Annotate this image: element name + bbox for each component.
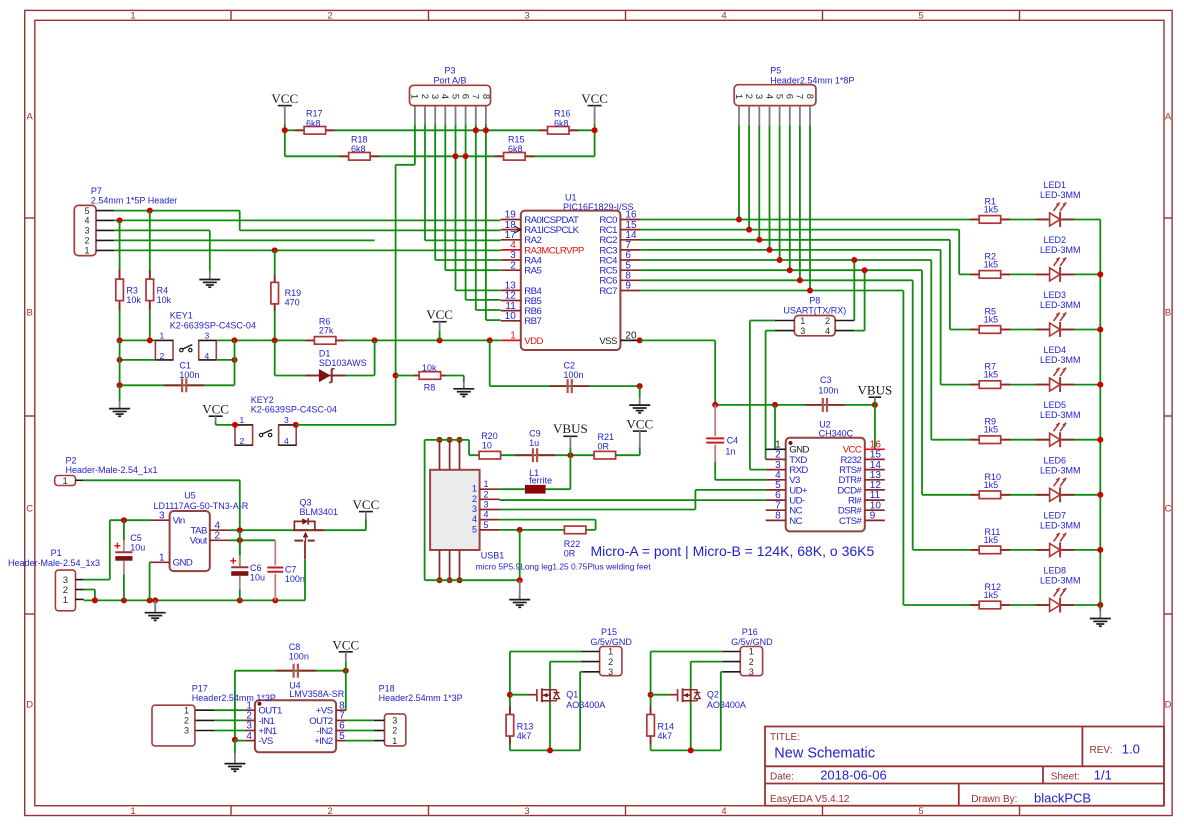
svg-text:10u: 10u (250, 573, 265, 583)
svg-text:VCC: VCC (353, 497, 380, 512)
svg-text:3: 3 (472, 504, 477, 514)
svg-text:1: 1 (130, 806, 135, 817)
svg-text:5: 5 (339, 731, 345, 742)
svg-text:100n: 100n (564, 370, 584, 380)
svg-text:3: 3 (429, 94, 440, 99)
svg-text:1n: 1n (725, 447, 735, 457)
svg-text:4: 4 (763, 94, 774, 99)
svg-text:5: 5 (449, 94, 460, 99)
svg-text:R13: R13 (517, 722, 534, 732)
svg-text:2: 2 (327, 11, 332, 22)
svg-text:3: 3 (392, 716, 397, 726)
svg-text:3: 3 (753, 94, 764, 99)
svg-text:2018-06-06: 2018-06-06 (820, 768, 887, 783)
svg-text:4: 4 (84, 216, 89, 226)
svg-text:LMV358A-SR: LMV358A-SR (289, 689, 345, 699)
svg-text:CTS#: CTS# (839, 516, 863, 527)
svg-text:R14: R14 (658, 722, 675, 732)
svg-text:AO3400A: AO3400A (707, 700, 746, 710)
svg-text:3: 3 (84, 226, 89, 236)
svg-text:1: 1 (510, 331, 516, 342)
svg-text:10k: 10k (157, 295, 172, 305)
svg-text:4: 4 (721, 11, 726, 22)
svg-text:LD1117AG-50-TN3-A-R: LD1117AG-50-TN3-A-R (154, 501, 249, 511)
svg-text:2: 2 (327, 806, 332, 817)
svg-text:6k8: 6k8 (351, 144, 366, 154)
svg-text:Q3: Q3 (300, 498, 312, 508)
svg-text:P2: P2 (66, 456, 77, 466)
svg-text:P15: P15 (601, 627, 617, 637)
svg-text:RC7: RC7 (599, 286, 617, 297)
svg-text:6k8: 6k8 (554, 118, 569, 128)
svg-text:Port A/B: Port A/B (433, 76, 466, 86)
svg-text:LED-3MM: LED-3MM (1040, 520, 1081, 530)
svg-text:1k5: 1k5 (984, 535, 999, 545)
svg-text:-VS: -VS (258, 736, 272, 747)
svg-text:0R: 0R (564, 549, 576, 559)
svg-text:8: 8 (804, 94, 815, 99)
svg-text:K2-6639SP-C4SC-04: K2-6639SP-C4SC-04 (170, 320, 256, 330)
svg-text:B: B (27, 308, 33, 319)
svg-text:PIC16F1829-I/SS: PIC16F1829-I/SS (563, 202, 634, 212)
svg-text:2: 2 (84, 236, 89, 246)
svg-text:Vin: Vin (173, 516, 185, 527)
svg-text:Micro-A = pont | Micro-B = 124: Micro-A = pont | Micro-B = 124K, 68K, o … (591, 543, 875, 559)
svg-text:1k5: 1k5 (984, 259, 999, 269)
svg-text:1k5: 1k5 (984, 425, 999, 435)
svg-text:100n: 100n (285, 574, 305, 584)
svg-text:10: 10 (482, 441, 492, 451)
svg-text:4k7: 4k7 (658, 731, 673, 741)
svg-text:BLM3401: BLM3401 (300, 507, 339, 517)
svg-text:2: 2 (825, 316, 830, 326)
svg-text:R3: R3 (126, 286, 138, 296)
svg-text:6: 6 (784, 94, 795, 99)
svg-text:4: 4 (246, 731, 252, 742)
svg-text:3: 3 (284, 415, 289, 425)
svg-text:P1: P1 (51, 548, 62, 558)
svg-text:10k: 10k (422, 363, 437, 373)
svg-text:C9: C9 (529, 429, 541, 439)
svg-text:RA5: RA5 (524, 266, 541, 277)
svg-text:R15: R15 (508, 135, 525, 145)
svg-text:2: 2 (419, 94, 430, 99)
svg-text:C: C (26, 504, 33, 515)
svg-text:5: 5 (483, 520, 488, 530)
svg-text:P17: P17 (192, 684, 208, 694)
svg-text:4: 4 (472, 514, 477, 524)
svg-text:Header-Male-2.54_1x3: Header-Male-2.54_1x3 (8, 558, 100, 568)
svg-text:R16: R16 (554, 109, 571, 119)
svg-text:VCC: VCC (626, 417, 653, 432)
svg-text:3: 3 (483, 500, 488, 510)
svg-text:Q2: Q2 (707, 690, 719, 700)
svg-text:Sheet:: Sheet: (1051, 772, 1080, 783)
svg-text:3: 3 (184, 726, 189, 736)
svg-text:P5: P5 (770, 66, 781, 76)
svg-text:KEY1: KEY1 (170, 311, 193, 321)
svg-text:C3: C3 (820, 375, 832, 385)
svg-text:1: 1 (160, 330, 165, 340)
svg-text:micro 5P5.9Long leg1.25 0.75Pl: micro 5P5.9Long leg1.25 0.75Plus welding… (476, 562, 652, 572)
svg-text:U1: U1 (565, 193, 577, 203)
svg-text:LED8: LED8 (1044, 566, 1067, 576)
svg-text:A: A (1165, 112, 1172, 123)
svg-text:3: 3 (524, 11, 529, 22)
svg-text:D: D (1165, 700, 1172, 711)
svg-text:3: 3 (159, 510, 165, 521)
svg-text:CH340C: CH340C (819, 428, 854, 438)
svg-text:G/5v/GND: G/5v/GND (590, 637, 632, 647)
svg-text:1: 1 (409, 94, 420, 99)
svg-text:New Schematic: New Schematic (774, 746, 875, 762)
svg-text:3: 3 (749, 667, 754, 677)
svg-text:1: 1 (62, 476, 67, 487)
svg-text:2: 2 (392, 726, 397, 736)
svg-text:1: 1 (392, 736, 397, 746)
svg-text:3: 3 (205, 330, 210, 340)
svg-text:Drawn By:: Drawn By: (971, 794, 1017, 805)
svg-text:C: C (1165, 504, 1172, 515)
svg-text:LED-3MM: LED-3MM (1040, 465, 1081, 475)
svg-text:C7: C7 (285, 565, 297, 575)
svg-text:5: 5 (773, 94, 784, 99)
svg-text:LED-3MM: LED-3MM (1040, 355, 1081, 365)
svg-text:P8: P8 (809, 296, 820, 306)
svg-text:1k5: 1k5 (984, 315, 999, 325)
svg-text:LED-3MM: LED-3MM (1040, 576, 1081, 586)
svg-text:7: 7 (470, 94, 481, 99)
svg-text:1k5: 1k5 (984, 590, 999, 600)
svg-text:NC: NC (789, 516, 802, 527)
svg-text:1: 1 (240, 415, 245, 425)
svg-text:LED-3MM: LED-3MM (1040, 410, 1081, 420)
svg-text:1: 1 (184, 705, 189, 715)
svg-text:LED3: LED3 (1044, 290, 1067, 300)
svg-text:Header2.54mm 1*8P: Header2.54mm 1*8P (770, 75, 854, 85)
svg-text:D1: D1 (319, 349, 331, 359)
svg-text:R17: R17 (306, 109, 323, 119)
svg-text:P18: P18 (379, 684, 395, 694)
svg-text:LED4: LED4 (1044, 345, 1067, 355)
svg-text:D: D (26, 700, 33, 711)
svg-text:4: 4 (284, 436, 289, 446)
svg-text:1.0: 1.0 (1122, 742, 1140, 757)
svg-text:R8: R8 (424, 383, 436, 393)
svg-text:5: 5 (84, 206, 89, 216)
svg-text:1: 1 (63, 595, 68, 606)
svg-text:Header2.54mm 1*3P: Header2.54mm 1*3P (379, 693, 463, 703)
svg-text:470: 470 (285, 298, 300, 308)
svg-text:27k: 27k (319, 326, 334, 336)
svg-text:1: 1 (733, 94, 744, 99)
svg-text:USART(TX/RX): USART(TX/RX) (783, 306, 846, 316)
svg-text:B: B (1165, 308, 1171, 319)
svg-text:ferrite: ferrite (529, 475, 552, 485)
svg-text:SD103AWS: SD103AWS (319, 358, 367, 368)
svg-text:4: 4 (205, 351, 210, 361)
svg-text:VCC: VCC (426, 307, 453, 322)
svg-text:6k8: 6k8 (306, 118, 321, 128)
svg-text:4: 4 (439, 94, 450, 99)
svg-text:U5: U5 (184, 491, 196, 501)
svg-text:1/1: 1/1 (1094, 768, 1112, 783)
svg-text:C4: C4 (727, 436, 739, 446)
svg-text:KEY2: KEY2 (251, 395, 274, 405)
svg-text:USB1: USB1 (481, 551, 505, 561)
svg-text:AO3400A: AO3400A (566, 700, 605, 710)
svg-text:Q1: Q1 (566, 690, 578, 700)
svg-text:R19: R19 (285, 288, 302, 298)
svg-text:LED1: LED1 (1044, 180, 1067, 190)
svg-text:C2: C2 (564, 361, 576, 371)
svg-text:VCC: VCC (332, 637, 359, 652)
svg-text:1: 1 (159, 553, 165, 564)
svg-text:VBUS: VBUS (858, 383, 893, 398)
svg-text:2: 2 (608, 657, 613, 667)
svg-text:1k5: 1k5 (984, 370, 999, 380)
svg-text:Date:: Date: (770, 772, 794, 783)
svg-text:C5: C5 (130, 533, 142, 543)
svg-text:100n: 100n (818, 386, 838, 396)
svg-text:2: 2 (483, 489, 488, 499)
svg-text:5: 5 (918, 11, 923, 22)
svg-text:C8: C8 (289, 642, 301, 652)
svg-text:10u: 10u (130, 543, 145, 553)
svg-text:3: 3 (800, 326, 805, 336)
svg-text:VBUS: VBUS (553, 421, 588, 436)
svg-text:P7: P7 (91, 186, 102, 196)
svg-text:5: 5 (918, 806, 923, 817)
svg-text:9: 9 (870, 511, 876, 522)
svg-text:100n: 100n (179, 370, 199, 380)
svg-text:R18: R18 (351, 135, 368, 145)
svg-text:2.54mm 1*5P Header: 2.54mm 1*5P Header (91, 196, 177, 206)
svg-text:2: 2 (743, 94, 754, 99)
svg-text:4k7: 4k7 (517, 731, 532, 741)
svg-text:4: 4 (721, 806, 726, 817)
svg-text:6k8: 6k8 (508, 144, 523, 154)
svg-text:100n: 100n (289, 652, 309, 662)
svg-text:1u: 1u (529, 438, 539, 448)
svg-text:C1: C1 (179, 361, 191, 371)
svg-text:VCC: VCC (271, 91, 298, 106)
svg-text:R20: R20 (481, 431, 498, 441)
svg-text:3: 3 (524, 806, 529, 817)
svg-text:R21: R21 (598, 432, 615, 442)
svg-text:R22: R22 (564, 539, 581, 549)
svg-text:2: 2 (749, 657, 754, 667)
svg-text:1: 1 (84, 246, 89, 256)
svg-text:VCC: VCC (581, 91, 608, 106)
svg-text:1: 1 (130, 11, 135, 22)
svg-text:9: 9 (625, 281, 631, 292)
svg-text:G/5v/GND: G/5v/GND (731, 637, 773, 647)
svg-text:P3: P3 (444, 66, 455, 76)
svg-text:TITLE:: TITLE: (770, 732, 800, 743)
svg-text:GND: GND (173, 558, 193, 569)
svg-text:20: 20 (625, 331, 637, 342)
svg-text:2: 2 (240, 436, 245, 446)
svg-text:2: 2 (160, 351, 165, 361)
svg-text:1: 1 (608, 647, 613, 657)
svg-text:R4: R4 (157, 286, 169, 296)
svg-text:2: 2 (215, 531, 221, 542)
svg-text:1: 1 (483, 479, 488, 489)
svg-text:8: 8 (480, 94, 491, 99)
svg-text:2: 2 (510, 260, 516, 271)
svg-text:1: 1 (749, 647, 754, 657)
svg-text:LED5: LED5 (1044, 400, 1067, 410)
svg-text:1k5: 1k5 (984, 204, 999, 214)
svg-text:LED7: LED7 (1044, 510, 1067, 520)
svg-text:K2-6639SP-C4SC-04: K2-6639SP-C4SC-04 (251, 405, 337, 415)
svg-text:1k5: 1k5 (984, 480, 999, 490)
svg-text:LED-3MM: LED-3MM (1040, 300, 1081, 310)
svg-text:7: 7 (794, 94, 805, 99)
svg-text:0R: 0R (598, 442, 610, 452)
svg-text:1: 1 (800, 316, 805, 326)
svg-text:EasyEDA V5.4.12: EasyEDA V5.4.12 (770, 794, 850, 805)
svg-text:VDD: VDD (524, 336, 543, 347)
svg-text:5: 5 (472, 524, 477, 534)
svg-text:1: 1 (472, 484, 477, 494)
svg-text:4: 4 (825, 326, 830, 336)
svg-text:REV:: REV: (1090, 745, 1113, 756)
svg-text:+IN2: +IN2 (314, 736, 333, 747)
svg-text:LED6: LED6 (1044, 455, 1067, 465)
svg-text:blackPCB: blackPCB (1034, 790, 1091, 805)
svg-text:LED2: LED2 (1044, 235, 1067, 245)
svg-text:4: 4 (483, 510, 488, 520)
svg-text:LED-3MM: LED-3MM (1040, 245, 1081, 255)
svg-text:LED-3MM: LED-3MM (1040, 190, 1081, 200)
svg-text:C6: C6 (250, 563, 262, 573)
svg-text:10: 10 (505, 311, 517, 322)
svg-text:VSS: VSS (599, 336, 617, 347)
svg-text:P16: P16 (742, 627, 758, 637)
svg-text:2: 2 (184, 716, 189, 726)
svg-text:10k: 10k (126, 295, 141, 305)
svg-text:Header2.54mm 1*3P: Header2.54mm 1*3P (192, 693, 276, 703)
svg-text:6: 6 (459, 94, 470, 99)
svg-text:2: 2 (472, 494, 477, 504)
svg-text:RB7: RB7 (524, 316, 541, 327)
svg-text:VCC: VCC (202, 402, 229, 417)
svg-text:Header-Male-2.54_1x1: Header-Male-2.54_1x1 (66, 465, 158, 475)
svg-text:A: A (27, 112, 34, 123)
svg-text:8: 8 (775, 511, 781, 522)
svg-text:3: 3 (608, 667, 613, 677)
svg-text:Vout: Vout (190, 536, 208, 547)
